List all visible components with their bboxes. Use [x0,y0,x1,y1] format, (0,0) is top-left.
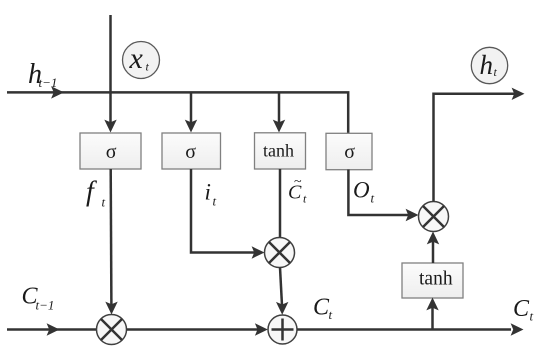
wire x_t input vertical into sigma gate 1 [104,15,116,133]
wire C~_t path from tanh gate 3 into middle multiply [279,169,282,238]
wire h_{t-1} horizontal with right turn into sigma gate 4 [7,86,348,133]
label i_t [205,180,217,209]
svg-text:t: t [303,192,307,206]
wire branch down into sigma gate 2 [185,92,197,133]
svg-text:C: C [513,296,530,322]
tanh gate box 5 (cell state squash) [402,263,463,298]
svg-text:t: t [213,194,217,209]
svg-text:i: i [205,180,211,205]
svg-text:C: C [288,181,302,203]
multiply node right (O_t x tanh(C_t)) [419,202,449,232]
multiply node middle (i_t x C~_t) [265,238,295,268]
wire middle multiply down to plus node [276,268,288,315]
svg-text:t−1: t−1 [39,75,58,90]
multiply node bottom (f_t x C_{t-1}) [97,315,127,345]
sigma gate box 2 (input gate) [162,133,221,169]
svg-text:t: t [329,307,333,322]
svg-text:O: O [353,178,370,203]
label h_{t-1} [28,59,57,90]
svg-text:t: t [371,191,375,206]
tanh gate box 3 (candidate) [255,133,306,169]
wire O_t path down and right into right multiply [348,170,418,222]
svg-text:σ: σ [344,141,355,163]
plus node (new cell state C_t) [268,315,297,344]
svg-text:t: t [530,309,534,324]
svg-text:h: h [480,50,494,80]
label f_t [86,177,106,210]
svg-text:C: C [313,295,330,321]
wire C_{t-1} horizontal into bottom multiply [7,323,97,335]
wire junction up into tanh box 5 [426,298,438,330]
sigma gate box 1 (forget gate) [80,133,141,169]
label O_t [353,178,375,206]
label C~_t (candidate cell) [288,175,307,206]
svg-text:t−1: t−1 [36,298,55,313]
label C_{t-1} [22,284,55,313]
node h_t output circle [471,47,507,83]
svg-text:tanh: tanh [263,141,294,161]
svg-text:σ: σ [106,141,117,163]
wire C_t output to the right edge [297,323,524,335]
node x_t input circle [123,42,160,79]
label C_t after plus [313,295,333,323]
wire i_t path down and right into middle multiply [191,169,265,259]
wire bottom multiply to plus node [127,323,268,335]
wire tanh box 5 up into right multiply [427,232,439,264]
svg-text:t: t [102,195,106,210]
wire f_t path down to bottom multiply [105,169,117,315]
wire h_t output up and right [434,88,525,202]
svg-text:f: f [86,177,97,208]
svg-text:tanh: tanh [419,269,453,290]
sigma gate box 4 (output gate) [326,133,372,169]
wire branch down into tanh gate 3 [273,92,285,133]
label C_t right edge [513,296,534,324]
svg-text:x: x [129,42,144,75]
svg-text:σ: σ [185,141,196,163]
